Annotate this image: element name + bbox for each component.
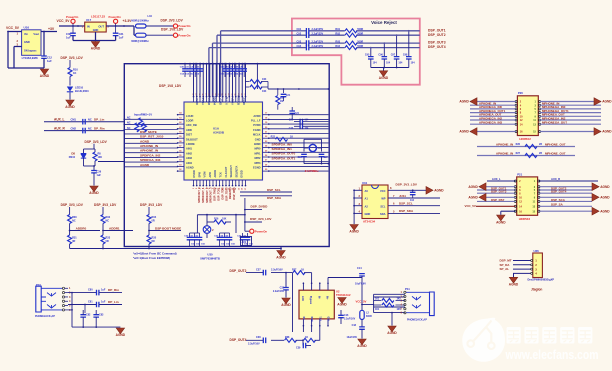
wire P20 left row 8 [470, 131, 516, 133]
resistor R35 NC [147, 231, 157, 249]
svg-text:10K: 10K [98, 156, 103, 159]
svg-text:AGND: AGND [349, 230, 359, 234]
svg-text:DSP_OUT4: DSP_OUT4 [428, 45, 446, 49]
wire AUX_L input [44, 121, 124, 123]
resistor R8 10K [93, 149, 102, 166]
chip U1A left pins [177, 114, 184, 172]
ground AGND arrow P21 right row8 [592, 207, 610, 215]
resistor R37 1K [292, 269, 312, 284]
capacitor C37 2.2uF/16V [256, 269, 283, 276]
wire top rail verticals to chip [193, 63, 247, 97]
capacitor C96 104 to ground [378, 42, 390, 67]
svg-text:PLL_V: PLL_V [225, 97, 229, 105]
audio amplifier U2 TPA6112A2 [299, 282, 351, 326]
svg-text:10K: 10K [262, 90, 267, 93]
svg-text:R94: R94 [335, 45, 340, 48]
svg-text:APHONE_IN: APHONE_IN [140, 144, 159, 148]
svg-text:MPI0: MPI0 [254, 147, 261, 151]
wire P21 left row 6 [477, 200, 515, 202]
svg-text:R37: R37 [292, 269, 297, 272]
wire P21 right row 8 [539, 210, 592, 212]
svg-text:DesSPI9600085SigXP: DesSPI9600085SigXP [528, 278, 555, 282]
resistor R34 0R [147, 207, 157, 231]
svg-text:DSP_3V3_LDV: DSP_3V3_LDV [61, 203, 84, 207]
wire reset to chip [98, 161, 124, 163]
svg-text:PowerOn: PowerOn [255, 229, 268, 233]
capacitor C22 104 [289, 119, 329, 125]
svg-text:DSP_3V3_LDV: DSP_3V3_LDV [161, 18, 184, 22]
svg-text:U31: U31 [362, 181, 368, 185]
svg-text:APHONE_IN: APHONE_IN [496, 151, 513, 155]
phone jack P11 PHONEJACK,AP [401, 287, 435, 322]
svg-text:SPDIFGA_IN3: SPDIFGA_IN3 [140, 158, 161, 162]
ground AGND arrow P20 bottom-left [459, 128, 477, 136]
capacitor C98 104 to ground [403, 30, 415, 68]
svg-text:AGND: AGND [91, 47, 101, 51]
svg-text:AGND: AGND [276, 256, 286, 260]
svg-text:APHONE_IN: APHONE_IN [496, 142, 513, 146]
svg-text:SP_AL: SP_AL [500, 267, 510, 271]
svg-text:VDDR8: VDDR8 [207, 96, 211, 105]
svg-text:www.elecfans.com: www.elecfans.com [505, 348, 599, 362]
svg-text:L10: L10 [148, 14, 153, 18]
svg-text:10uF/16V: 10uF/16V [347, 336, 358, 339]
node dots box left edge [123, 118, 125, 130]
svg-text:LOUD: LOUD [186, 114, 193, 118]
svg-text:R26: R26 [516, 143, 521, 146]
svg-text:DSP_3V3_LDV: DSP_3V3_LDV [396, 183, 418, 187]
wire LD1117 output +3.3V rail [106, 25, 134, 27]
capacitor C60 104 [410, 190, 426, 202]
svg-text:C95: C95 [365, 54, 370, 57]
svg-text:DSP BOOT MODE: DSP BOOT MODE [155, 226, 181, 230]
LED LED10 BLUE,0603 [67, 85, 89, 99]
svg-text:C98: C98 [403, 54, 408, 57]
wire P20 left row 7 [470, 123, 516, 125]
ground AGND Jtag [509, 277, 519, 286]
svg-text:C39: C39 [296, 347, 301, 350]
wire Jtag row 3 [513, 268, 533, 270]
part number text U30 XMF763M48TB [200, 253, 220, 261]
wire P21 right row 5 [539, 196, 592, 198]
svg-text:AUX_L: AUX_L [54, 117, 65, 121]
wire P20 left row 5 [470, 115, 516, 117]
svg-text:PowerOn: PowerOn [178, 33, 191, 37]
wire AUX_R input [44, 130, 124, 132]
chip U1A bottom pins [193, 180, 247, 186]
svg-text:NC: NC [72, 219, 76, 222]
svg-text:2.2uF/16V: 2.2uF/16V [248, 343, 260, 346]
resistor R12 [127, 122, 146, 132]
capacitor C14 10uF/16V [355, 267, 366, 311]
wire amp bypass cap [284, 326, 312, 341]
resistor R16 10K [207, 218, 231, 225]
svg-text:1K: 1K [73, 71, 76, 75]
svg-text:AGND: AGND [602, 130, 612, 134]
svg-text:0R: 0R [106, 240, 109, 243]
chip U1A left pin labels [186, 114, 198, 170]
capacitor C80 1uF DP_Rin [88, 288, 122, 295]
ground AGND P21 bottom-left [496, 211, 506, 224]
ground AGND arrow at EEPROM VCC [426, 187, 444, 195]
watermark text chinese [507, 327, 593, 344]
svg-text:A3415B: A3415B [213, 131, 225, 135]
wire U16 Vout to +3V [41, 31, 57, 56]
svg-text:NC: NC [127, 122, 131, 125]
capacitor C24 at PLL [289, 107, 299, 119]
svg-text:1K: 1K [301, 269, 304, 272]
capacitor CM2 NC DP_Rin [71, 126, 105, 133]
decoupling caps group CB5 [237, 233, 253, 247]
wire P21 left row 4 [477, 192, 515, 194]
ground AGND arrow P21 left row2 [468, 183, 486, 191]
ground AGND P10 [116, 328, 126, 337]
push button S1 [203, 222, 214, 238]
svg-text:JU1: JU1 [242, 241, 247, 244]
capacitor C82 [80, 310, 91, 327]
resistor R31 0R [68, 231, 78, 249]
ground AGND voice reject [379, 68, 389, 81]
svg-text:SPDIFGA_OUT1: SPDIFGA_OUT1 [272, 156, 296, 160]
resistor R13 [127, 123, 139, 132]
svg-text:DSP_SA: DSP_SA [551, 203, 564, 207]
svg-text:DSP_3V3_LDV: DSP_3V3_LDV [85, 140, 108, 144]
svg-text:AGND: AGND [140, 163, 150, 167]
svg-text:*w3=1(Boot From EEPROM): *w3=1(Boot From EEPROM) [133, 256, 170, 260]
svg-text:AIN1: AIN1 [186, 147, 192, 151]
svg-text:MPI1: MPI1 [254, 151, 261, 155]
capacitor C91 2.2uF/25V [297, 28, 324, 34]
svg-text:AGND: AGND [600, 209, 610, 213]
svg-text:R93: R93 [335, 40, 340, 43]
svg-text:LODR: LODR [186, 119, 193, 123]
chip U1A right pin labels [251, 114, 261, 170]
svg-text:BLUE,0603: BLUE,0603 [75, 89, 89, 93]
svg-text:DSP_1V8_LDV: DSP_1V8_LDV [159, 84, 182, 88]
capacitor C21 [281, 89, 291, 101]
wire divider ground rail [70, 248, 282, 250]
capacitor C94 2.2uF/25V [297, 45, 324, 51]
ground AGND under C33 [281, 298, 291, 307]
svg-text:HDR5X2: HDR5X2 [519, 137, 531, 141]
voltage regulator U16 LT1963 [22, 26, 41, 60]
wire APHONE1_IN to MPHONE1_OUT [477, 146, 575, 148]
ferrite bead L10 600R@100MHz [131, 14, 152, 28]
svg-text:MCLKB: MCLKB [236, 96, 240, 105]
svg-text:HDR5X2: HDR5X2 [519, 217, 531, 221]
svg-text:C30: C30 [66, 32, 71, 36]
capacitor C39 under amp [296, 339, 311, 349]
wire P20 right row 8 [540, 131, 601, 133]
svg-text:C97: C97 [391, 54, 396, 57]
svg-text:SD: SD [304, 316, 306, 320]
connector P21 HDR5X2 [514, 172, 540, 221]
ground AGND divider rail [276, 247, 286, 260]
svg-text:Vout: Vout [33, 32, 39, 36]
svg-text:DSP_MUTE: DSP_MUTE [140, 130, 157, 134]
wire VCC_5V input to LD1117 [59, 25, 85, 27]
svg-text:R10: R10 [73, 67, 78, 71]
wire vertical to PowerOn [244, 198, 250, 231]
svg-text:AIN3: AIN3 [186, 156, 192, 160]
svg-text:0R: 0R [72, 240, 75, 243]
svg-text:C31: C31 [119, 32, 124, 36]
resistor RA4 10K [245, 78, 268, 84]
wire chip right rows [269, 115, 329, 171]
svg-text:GND: GND [365, 212, 371, 216]
svg-text:VCC_5V: VCC_5V [465, 204, 476, 208]
wire reset bottom [84, 162, 125, 171]
svg-text:P11: P11 [405, 287, 410, 291]
svg-text:DSP_WB5: DSP_WB5 [233, 187, 236, 200]
svg-text:EVDD: EVDD [240, 170, 244, 177]
wire P20 right row 6 [540, 119, 601, 121]
phone jack P10 PHONEJACK,AP [35, 283, 71, 318]
svg-text:VCC_5V: VCC_5V [6, 26, 20, 30]
ground AGND arrow P20 top-left [459, 98, 477, 106]
svg-text:InputRMS=1V: InputRMS=1V [134, 112, 152, 116]
wire P21 left row 5 [486, 196, 515, 198]
capacitor C27 [319, 154, 329, 163]
svg-text:C91: C91 [297, 28, 302, 31]
resistor R32 NC [101, 207, 111, 231]
wire voice-reject row 4 [292, 47, 420, 49]
svg-text:500R: 500R [357, 28, 363, 31]
capacitor C26 [298, 154, 307, 163]
svg-text:1uF: 1uF [119, 35, 124, 39]
wire DSP_OUT4 to amp [246, 339, 284, 341]
svg-text:104: 104 [411, 62, 416, 65]
svg-text:VCC: VCC [380, 189, 386, 193]
svg-text:DSP_TCK1: DSP_TCK1 [218, 187, 221, 201]
wire P21 left row 7 [476, 205, 515, 207]
resistor R20 1M [276, 89, 285, 110]
DSP core group box [124, 64, 329, 247]
svg-text:C27: C27 [324, 157, 329, 159]
svg-text:AGND: AGND [40, 74, 50, 78]
svg-text:Voice Reject: Voice Reject [371, 20, 397, 25]
svg-text:TPA6112A2: TPA6112A2 [336, 293, 351, 297]
svg-text:SPDIFOUT_1: SPDIFOUT_1 [202, 187, 205, 203]
svg-text:1K: 1K [305, 336, 308, 339]
svg-text:R27: R27 [516, 152, 521, 155]
svg-text:ADDR0: ADDR0 [76, 226, 87, 230]
ground AGND arrow P21 right row5 [592, 194, 610, 202]
decoupling caps group CB3 [184, 233, 205, 247]
wire P21 right row 3 [539, 189, 592, 191]
connector P22 Jtag [533, 249, 543, 278]
svg-text:DP_Lin: DP_Lin [108, 300, 119, 304]
svg-text:1uF: 1uF [47, 59, 52, 63]
svg-text:2.2uF/25V: 2.2uF/25V [312, 40, 324, 43]
svg-text:NC: NC [127, 117, 131, 120]
svg-text:ADDR1: ADDR1 [109, 226, 120, 230]
svg-text:C82: C82 [86, 314, 91, 317]
svg-text:TCK: TCK [219, 172, 223, 177]
svg-text:CM1: CM1 [71, 117, 77, 121]
net label VCC_5V at amp [356, 300, 374, 306]
svg-text:SDA: SDA [380, 212, 386, 216]
svg-text:DSP_OUT1: DSP_OUT1 [428, 28, 446, 32]
svg-text:A2: A2 [365, 204, 369, 208]
capacitor C97 104 to ground [391, 34, 403, 67]
svg-text:2.2uF/16V: 2.2uF/16V [344, 318, 356, 321]
wire EEPROM SDA [388, 209, 440, 213]
svg-text:2.2uF/25V: 2.2uF/25V [312, 32, 324, 35]
wire P20 right row 2 [540, 104, 601, 106]
svg-text:10K: 10K [222, 218, 227, 221]
svg-text:VCC_5V: VCC_5V [57, 19, 71, 23]
wire P21 right row 7 [539, 205, 592, 207]
svg-text:DSP_SCL: DSP_SCL [267, 188, 281, 192]
svg-text:104: 104 [386, 62, 391, 65]
svg-text:LD1117,33: LD1117,33 [91, 14, 105, 18]
svg-text:C94: C94 [297, 45, 302, 48]
wire Jtag row 2 [513, 264, 533, 266]
svg-text:PowerOn: PowerOn [109, 15, 122, 19]
wire P21 left row 1 [487, 180, 515, 182]
svg-text:SELROUT: SELROUT [229, 165, 233, 178]
svg-text:DSP_SDA: DSP_SDA [399, 209, 414, 213]
svg-text:SPDIFOUT_0: SPDIFOUT_0 [198, 187, 201, 203]
net label DSP_DVDD [245, 205, 268, 210]
ground AGND under LED10 [65, 100, 75, 109]
wire P20 right row 4 [540, 112, 601, 114]
note boot mode footnotes [133, 252, 177, 260]
svg-text:U2: U2 [336, 290, 340, 294]
chip U1A right pins [263, 114, 270, 172]
wire P21 left row 2 [486, 186, 515, 188]
svg-text:AGND: AGND [600, 195, 610, 199]
svg-text:C14: C14 [357, 267, 362, 270]
svg-text:C12: C12 [47, 56, 52, 60]
svg-text:RESETB4: RESETB4 [229, 187, 232, 199]
wire DSP_OUT1 riser [221, 31, 292, 97]
svg-text:Vin: Vin [24, 32, 28, 36]
svg-text:AUX_L: AUX_L [492, 177, 501, 181]
resistor R39 1K [304, 326, 320, 343]
svg-text:MPHONE_OUT: MPHONE_OUT [545, 142, 566, 146]
wire P20 left row 3 [470, 108, 516, 110]
svg-text:U36: U36 [534, 249, 540, 253]
wire crystal ground rail [304, 163, 329, 165]
svg-text:10K: 10K [262, 78, 267, 81]
svg-text:1M: 1M [280, 100, 283, 103]
wire EEPROM left pins to ground [353, 187, 362, 225]
svg-text:24.576MHz: 24.576MHz [305, 169, 319, 173]
wire P10 pin4 to DP_Lin [68, 304, 96, 306]
svg-text:R16: R16 [214, 218, 219, 221]
svg-text:1uF: 1uF [101, 289, 106, 292]
wire P20 right row 3 [540, 108, 601, 110]
svg-text:PVDD: PVDD [253, 123, 260, 127]
svg-text:DSP_OUT4: DSP_OUT4 [230, 338, 247, 342]
wire DSP_OUT4 riser [209, 48, 292, 97]
svg-text:AUX_R: AUX_R [551, 177, 560, 181]
svg-text:AIN4: AIN4 [186, 161, 192, 165]
resistor R27 2R [496, 151, 566, 157]
svg-text:SPDIFGA_IN1: SPDIFGA_IN1 [272, 147, 293, 151]
svg-text:A1: A1 [365, 197, 369, 201]
wire P21 right row 2 [539, 186, 592, 188]
svg-text:IN: IN [87, 24, 90, 28]
wire P21 right row 6 [539, 200, 592, 202]
capacitor C30 1uF [66, 26, 76, 41]
svg-text:AT24C04: AT24C04 [363, 220, 376, 224]
wire bead branch down [134, 26, 136, 35]
svg-text:EGND: EGND [253, 166, 261, 170]
svg-text:C18: C18 [352, 324, 357, 327]
wire VCC_5V to U16 Vin [7, 31, 22, 33]
svg-text:104: 104 [373, 62, 378, 65]
svg-text:CLKOUT: CLKOUT [224, 166, 228, 177]
svg-text:1uF: 1uF [66, 35, 71, 39]
svg-text:APHONEGA_IN3: APHONEGA_IN3 [479, 121, 502, 125]
wire EEPROM SCL [388, 202, 440, 206]
chip U1A pin numbers [179, 92, 268, 190]
svg-text:A0: A0 [365, 189, 369, 193]
svg-text:FGND: FGND [253, 128, 260, 132]
svg-text:OUT: OUT [98, 24, 104, 28]
wire voice-reject row 1 [292, 30, 420, 32]
wire P21 left row 8 [501, 210, 516, 212]
svg-text:SPDIFOUT_3: SPDIFOUT_3 [210, 187, 213, 203]
svg-text:AGND: AGND [89, 191, 99, 195]
ground AGND under EEPROM [349, 225, 359, 234]
svg-text:PLL_LF: PLL_LF [251, 119, 261, 123]
svg-text:GND: GND [255, 137, 261, 141]
svg-text:SPI0: SPI0 [197, 171, 201, 177]
wire P21 left row 3 [477, 189, 515, 191]
svg-text:C26: C26 [298, 157, 303, 159]
svg-text:AGND: AGND [186, 166, 194, 170]
svg-text:600R@100Mhz: 600R@100Mhz [131, 40, 149, 43]
svg-text:AIN2: AIN2 [186, 151, 192, 155]
svg-text:2.2uF/25V: 2.2uF/25V [312, 45, 324, 48]
svg-text:DP_Rin: DP_Rin [108, 288, 119, 292]
svg-text:CM2: CM2 [71, 126, 77, 130]
svg-text:MPI3: MPI3 [254, 161, 261, 165]
svg-text:500R: 500R [357, 32, 363, 35]
wire chip left rows [124, 119, 177, 167]
wire node ADDR1 [102, 226, 133, 231]
svg-text:DVDD: DVDD [192, 170, 196, 177]
inductor L2 600R at amp [360, 310, 372, 319]
svg-text:VDD: VDD [329, 316, 331, 321]
capacitor C93 2.2uF/25V [297, 40, 324, 46]
svg-text:10uF/16V: 10uF/16V [355, 283, 366, 286]
Voice Reject group box [292, 19, 420, 85]
svg-text:Bypass: Bypass [309, 296, 311, 305]
svg-text:MCLK: MCLK [253, 133, 261, 137]
capacitor C83 [93, 310, 104, 327]
svg-text:AGND: AGND [281, 303, 291, 307]
svg-text:AGND: AGND [337, 303, 347, 307]
svg-text:LT1963,EM8: LT1963,EM8 [22, 56, 38, 60]
capacitor CM1 NC DP_Lin [71, 117, 105, 124]
wire amp outputs to P11 [374, 294, 405, 312]
capacitor C38 2.2uF/16V [248, 336, 266, 345]
svg-text:BIND: BIND [254, 142, 260, 146]
svg-text:500R: 500R [357, 45, 363, 48]
svg-text:PHONEJACK,AP: PHONEJACK,AP [407, 319, 427, 322]
svg-text:C38: C38 [256, 336, 261, 339]
svg-text:AGND: AGND [468, 195, 478, 199]
svg-text:AUX_R: AUX_R [54, 126, 66, 130]
wire P10 ground verticals [68, 293, 96, 328]
svg-text:104: 104 [398, 62, 403, 65]
svg-text:ADDR: ADDR [213, 170, 217, 178]
